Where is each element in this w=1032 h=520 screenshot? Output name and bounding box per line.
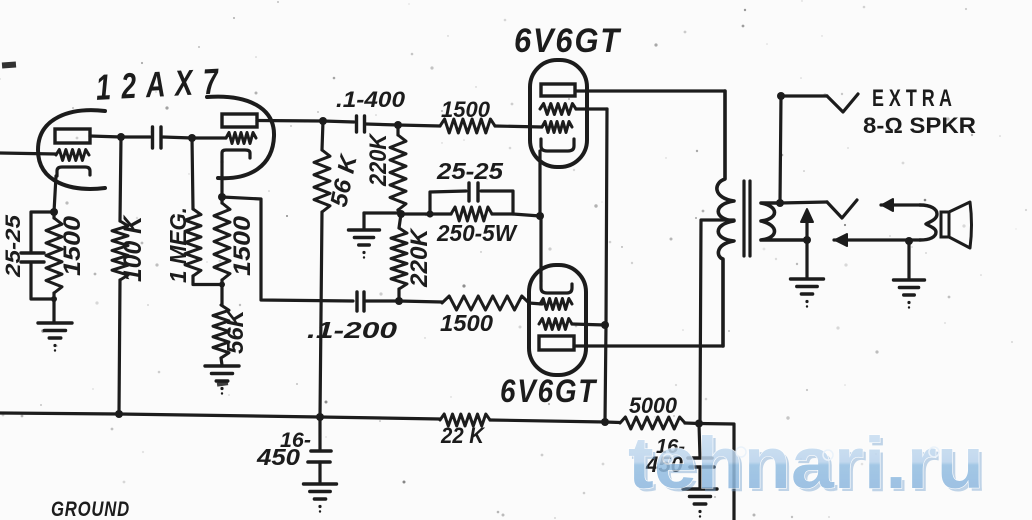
svg-text:1500: 1500: [229, 215, 256, 276]
svg-text:56K: 56K: [222, 309, 248, 354]
svg-text:GROUND: GROUND: [51, 498, 130, 520]
svg-text:25-25: 25-25: [2, 215, 25, 279]
svg-text:tehnari.ru: tehnari.ru: [628, 423, 984, 504]
svg-text:6V6GT: 6V6GT: [500, 373, 597, 409]
svg-text:1 MEG.: 1 MEG.: [165, 207, 191, 283]
svg-text:220K: 220K: [406, 227, 433, 288]
svg-text:250-5W: 250-5W: [436, 220, 518, 246]
svg-text:1500: 1500: [59, 215, 86, 276]
svg-text:1 2 A X 7: 1 2 A X 7: [95, 60, 221, 107]
svg-text:220K: 220K: [365, 132, 392, 186]
svg-text:.1-400: .1-400: [336, 87, 406, 112]
svg-text:100 K: 100 K: [119, 214, 147, 282]
svg-text:25-25: 25-25: [436, 158, 504, 184]
svg-text:5000: 5000: [629, 393, 678, 418]
svg-text:1500: 1500: [441, 97, 491, 122]
svg-text:450: 450: [256, 444, 300, 470]
svg-text:22 K: 22 K: [440, 423, 486, 448]
svg-text:8-Ω SPKR: 8-Ω SPKR: [863, 113, 976, 138]
svg-text:1500: 1500: [440, 310, 493, 336]
svg-text:E X T R A: E X T R A: [872, 85, 952, 112]
svg-text:6V6GT: 6V6GT: [514, 22, 622, 60]
